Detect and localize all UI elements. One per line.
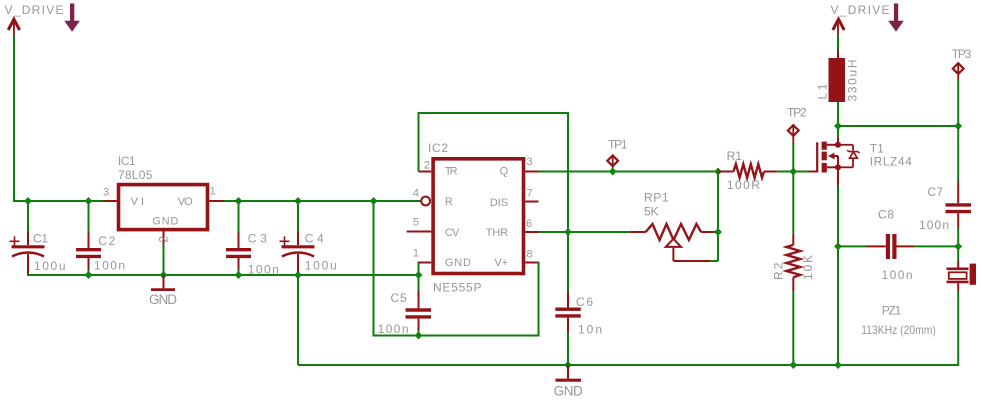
pin name VO [178,196,193,208]
pin 3 stub of IC1 [103,200,117,202]
svg-text:C2: C2 [98,234,115,248]
value 113KHz (20mm) of PZ1 [861,323,936,337]
svg-text:V_DRIVE: V_DRIVE [831,3,890,17]
pin 2 stub of IC1 [163,230,165,244]
node junction source/gnd-rail [834,361,842,369]
label C3 [248,231,267,245]
svg-text:TP3: TP3 [952,47,972,61]
svg-text:R1: R1 [727,149,743,163]
value 78L05 [118,168,153,182]
value IRLZ44 of T1 [870,155,912,169]
wire C2 column [88,201,90,275]
svg-text:100n: 100n [919,218,949,232]
node junction gnd-rail/C6 [564,361,572,369]
wire C1 column [27,201,29,231]
pin 7 stub DIS [525,201,538,203]
label TP3 [952,47,972,61]
svg-text:100n: 100n [378,322,409,336]
node junction IC1-pin2/gnd-rail [160,271,168,279]
wire C6 bottom to gnd rail [567,333,569,365]
node junction gate/TP2/R2 [789,168,797,176]
node junction THR/C6 column [564,228,572,236]
supply down-arrow symbol (right V_DRIVE) [888,4,904,32]
svg-text:IC1: IC1 [118,154,136,168]
pin name Q [500,165,509,177]
svg-text:V_DRIVE: V_DRIVE [5,3,64,17]
value 100R of R1 [727,178,760,192]
net label V_DRIVE (left) [5,3,64,17]
node junction C3/gnd-rail [235,271,243,279]
op-amp IC2 box NE555P [433,159,523,274]
net label V_DRIVE (right) [831,3,890,17]
supply pin up-chevron (left V_DRIVE) [8,19,19,35]
wire C4 column down to bottom gnd rail [297,275,299,365]
ground symbol GND (bottom center) [556,365,582,380]
pin name VI [131,196,144,208]
wire R2 bottom to gnd rail [792,291,794,365]
svg-text:100n: 100n [94,259,125,273]
pin number 8 (IC2) [527,249,533,261]
wire C7 column upper [957,126,959,181]
svg-text:100n: 100n [882,268,913,282]
wire RP1 wiper loop green part [710,232,718,261]
label R2 (rotated) [772,262,786,280]
wire THR line from pin6 [539,231,630,233]
ground symbol GND (under IC1) [151,275,175,290]
node junction TP3/drain line [954,122,962,130]
wire L1 bottom to drain node [837,102,839,138]
wire IC1 pin2 to gnd rail [163,244,165,275]
label GND (under IC1) [149,292,177,307]
pin number 3 (IC1) [103,186,109,198]
pin number 3 (IC2) [527,156,533,168]
value 330uH of L1 (rotated) [845,60,859,102]
svg-text:2: 2 [157,236,171,243]
svg-text:78L05: 78L05 [118,168,153,182]
inductor L1 330uH [829,51,846,103]
svg-text:RP1: RP1 [644,190,669,204]
node junction R2/gnd-rail [789,361,797,369]
svg-text:100u: 100u [34,259,66,273]
svg-text:GND: GND [149,292,177,307]
capacitor C8 (100n, horizontal) [838,234,958,259]
svg-text:1: 1 [413,248,419,260]
wire V_DRIVE right down to L1 [837,36,839,51]
svg-text:CV: CV [445,227,460,239]
value 100u of C4 [305,258,337,272]
svg-text:TR: TR [445,165,458,177]
node junction TP1/Q line [609,168,617,176]
capacitor C5 (100n) [406,291,432,331]
pin 6 stub THR [525,231,538,233]
wire C7 to C8 node [957,228,959,246]
resistor R2 10K (vertical) [786,234,800,291]
value 5K of RP1 [644,205,659,219]
svg-text:GND: GND [152,215,178,227]
node junction RP1 right/THR vertical [714,228,722,236]
label GND (bottom center) [554,383,583,398]
pin name GND (IC2) [445,257,471,269]
svg-text:C5: C5 [391,291,408,305]
svg-text:2: 2 [424,159,430,171]
test point TP1 [607,155,618,172]
wire V_DRIVE left vertical and top rail to IC1 VI [14,36,103,202]
svg-text:VI: VI [131,196,144,208]
svg-text:C8: C8 [878,208,894,222]
svg-text:C1: C1 [33,232,48,246]
pin 3 stub Q [525,171,538,173]
svg-text:GND: GND [554,383,583,398]
label C7 [928,185,944,199]
wire R2 column upper [792,172,794,234]
pin 8 stub V+ [525,262,537,264]
label RP1 [644,190,669,204]
node junction source/C8 [834,242,842,250]
svg-text:7: 7 [527,187,533,199]
svg-text:3: 3 [527,156,533,168]
pin name TR [445,165,458,177]
label TP1 [608,137,628,151]
test point TP3 [953,63,964,80]
node junction C4/rail [294,197,302,205]
node junction L1/TP3 line [834,122,842,130]
svg-text:VO: VO [178,196,193,208]
svg-text:IRLZ44: IRLZ44 [870,155,912,169]
pin number 1 (IC1) [210,186,216,198]
pin name R [445,196,453,208]
pin name GND (IC1) [152,215,178,227]
capacitor C4 (polarized 100u) [280,231,315,275]
label L1 (rotated) [816,83,830,99]
svg-text:113KHz (20mm): 113KHz (20mm) [861,323,936,337]
label PZ1 [882,303,902,317]
wire C3 column [238,201,240,275]
wire R/V+ supply loop [374,201,539,336]
node junction rail/R-V+ branch [370,197,378,205]
pin 5 stub CV [407,231,432,233]
value 100n of C7 [919,218,949,232]
svg-text:8: 8 [527,249,533,261]
svg-text:TP1: TP1 [608,137,628,151]
pin name DIS [490,197,508,209]
svg-text:Q: Q [500,165,509,177]
piezo PZ1 [947,261,977,291]
value 100n of C8 [882,268,913,282]
label C2 [98,234,115,248]
svg-text:R: R [445,196,453,208]
wire TR loop (pin2 up over to THR column) [419,113,569,232]
pin name CV [445,227,460,239]
node junction C8/PZ1 column [954,242,962,250]
value 10n of C6 [578,323,602,337]
wire GND rail upper (C1 to C5) [28,274,419,275]
svg-text:330uH: 330uH [845,60,859,102]
pin number 4 (IC2) [413,187,419,199]
op-amp IC1 box 78L05 [119,185,208,230]
wire Q-THR vertical branch at RP1 [717,172,719,262]
wire R1 to gate node [778,171,809,173]
supply down-arrow symbol (left V_DRIVE) [64,4,80,32]
node junction C5/V+ loop [415,332,423,340]
svg-text:C6: C6 [576,295,593,309]
test point TP2 [788,125,799,172]
node junction C3/rail [235,197,243,205]
pin number 6 (IC2) [526,218,532,230]
svg-text:DIS: DIS [490,197,508,209]
node junction pin1/gnd-rail [415,271,423,279]
svg-text:100R: 100R [727,178,760,192]
pin 2 stub TR [419,171,432,173]
wire C6 column upper [567,232,569,291]
svg-text:V+: V+ [494,257,508,269]
capacitor C1 (polarized 100u) [10,231,45,275]
potentiometer RP1 5K [629,224,714,261]
svg-text:GND: GND [445,257,471,269]
transistor T1 IRLZ44 [809,138,860,186]
value 100u of C1 [34,259,66,273]
wire T1 source column to gnd rail [837,186,839,365]
svg-text:3: 3 [103,186,109,198]
value 100n of C5 [378,322,409,336]
node junction C2/rail [85,197,93,205]
wire drain node line to TP3 column [838,125,958,127]
node junction C1/rail [24,197,32,205]
value NE555P [433,280,482,294]
wire rail VO to IC2 R pin [224,200,421,202]
pin number 5 (IC2) [413,217,419,229]
svg-text:TP2: TP2 [787,106,807,120]
label IC2 [428,141,448,155]
svg-text:6: 6 [526,218,532,230]
label C8 [878,208,894,222]
svg-text:5: 5 [413,217,419,229]
pin number 2 (IC2) [424,159,430,171]
svg-text:IC2: IC2 [428,141,448,155]
svg-text:10n: 10n [578,323,602,337]
wire Q output line [539,171,719,173]
pin number 7 (IC2) [527,187,533,199]
label C1 [33,232,48,246]
pin name V+ [494,257,508,269]
capacitor C7 (100n) [946,181,972,228]
svg-text:100n: 100n [248,263,279,277]
wire bottom gnd rail [298,291,958,366]
label IC1 [118,154,136,168]
label R1 [727,149,743,163]
value 100n of C3 [248,263,279,277]
node junction C4/gnd-rail [294,271,302,279]
pin 4 inversion circle (R) [421,197,430,206]
node junction C2/gnd-rail [85,271,93,279]
pin number 2 (IC1, rotated) [157,236,171,243]
svg-text:PZ1: PZ1 [882,303,902,317]
label C4 [305,231,324,245]
svg-text:NE555P: NE555P [433,280,482,294]
capacitor C3 (100n) [226,233,251,270]
label TP2 [787,106,807,120]
value 10K of R2 (rotated) [801,255,815,280]
capacitor C2 (100n) [76,233,101,270]
node junction Q/RP1 branch [714,168,722,176]
supply pin up-chevron (right V_DRIVE) [833,19,844,35]
capacitor C6 (10n) [555,291,581,333]
wire PZ1 column upper [957,246,959,261]
label T1 [870,141,884,155]
pin name THR [486,227,509,239]
svg-text:T1: T1 [870,141,884,155]
svg-text:1: 1 [210,186,216,198]
svg-text:5K: 5K [644,205,659,219]
label C5 [391,291,408,305]
label C6 [576,295,593,309]
resistor R1 100R [718,164,778,178]
pin number 1 (IC2) [413,248,419,260]
svg-text:100u: 100u [305,258,337,272]
value 100n of C2 [94,259,125,273]
svg-text:4: 4 [413,187,419,199]
pin 1 stub GND [419,262,432,264]
wire IC2 pin1 to gnd rail and C5 column [419,263,421,336]
svg-text:10K: 10K [801,255,815,280]
svg-text:C7: C7 [928,185,944,199]
pin 1 stub of IC1 [209,200,224,202]
wire C4 column [297,201,299,231]
svg-text:THR: THR [486,227,509,239]
wire TP3 down to drain line [957,80,959,126]
